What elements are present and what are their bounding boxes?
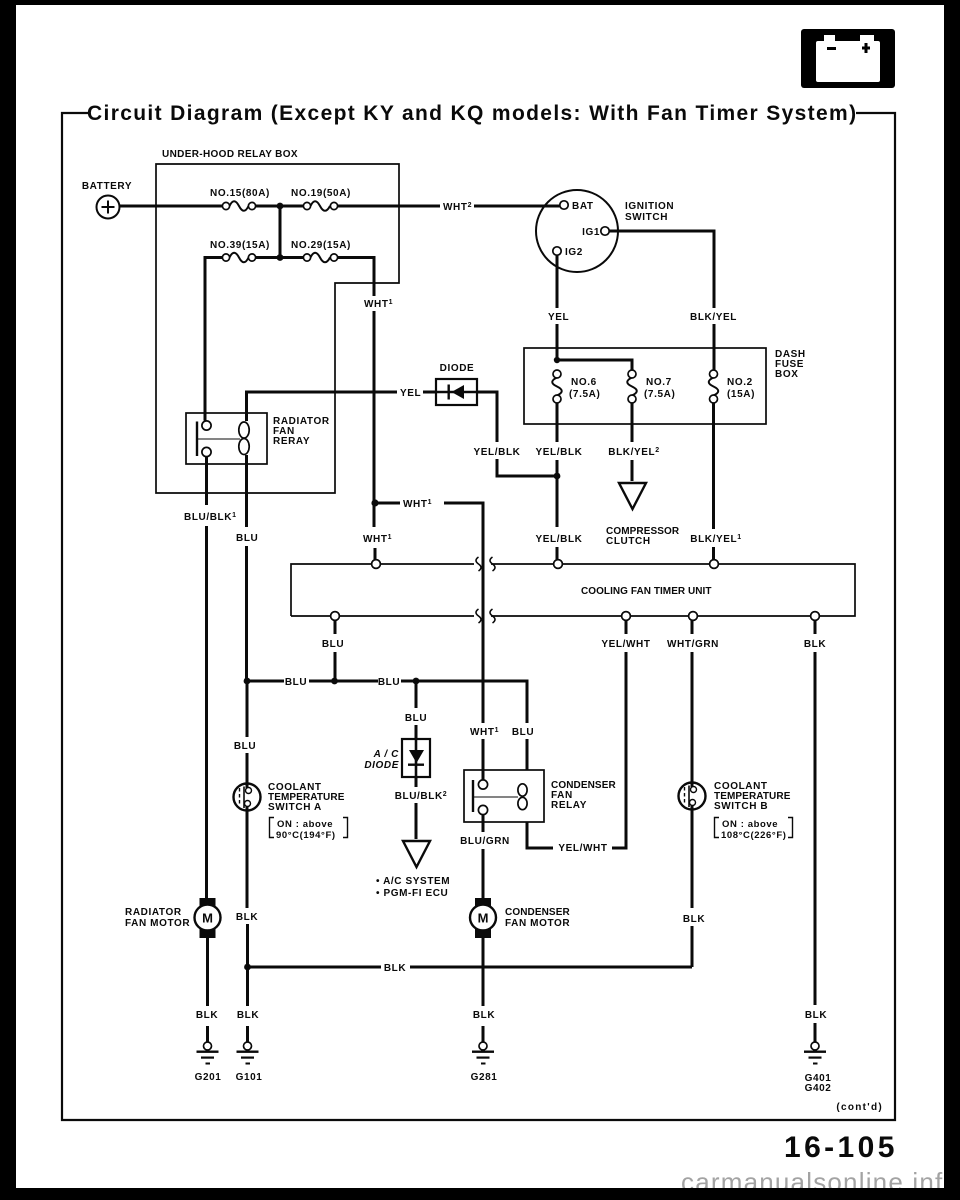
svg-text:• A/C SYSTEM: • A/C SYSTEM	[376, 876, 450, 887]
svg-text:BLU: BLU	[512, 727, 534, 738]
svg-text:BLU: BLU	[285, 677, 307, 688]
svg-text:(15A): (15A)	[727, 389, 755, 400]
svg-text:G101: G101	[236, 1072, 263, 1083]
svg-text:YEL/BLK: YEL/BLK	[474, 447, 521, 458]
svg-text:NO.2: NO.2	[727, 377, 753, 388]
svg-text:IG1: IG1	[582, 227, 600, 238]
svg-text:DIODE: DIODE	[440, 363, 475, 374]
svg-text:BLK: BLK	[237, 1010, 260, 1021]
svg-text:BLU/BLK2: BLU/BLK2	[395, 791, 448, 802]
svg-text:DIODE: DIODE	[364, 760, 399, 771]
svg-text:M: M	[202, 911, 213, 926]
svg-text:BLK: BLK	[683, 914, 706, 925]
svg-text:UNDER-HOOD RELAY BOX: UNDER-HOOD RELAY BOX	[162, 149, 298, 160]
svg-text:WHT1: WHT1	[364, 299, 393, 310]
svg-text:ON : above: ON : above	[277, 819, 333, 830]
svg-text:NO.15(80A): NO.15(80A)	[210, 188, 270, 199]
svg-text:SWITCH A: SWITCH A	[268, 802, 322, 813]
svg-text:RADIATOR: RADIATOR	[125, 907, 182, 918]
svg-text:SWITCH B: SWITCH B	[714, 801, 768, 812]
svg-text:NO.6: NO.6	[571, 377, 597, 388]
svg-text:SWITCH: SWITCH	[625, 212, 668, 223]
svg-text:A / C: A / C	[373, 749, 400, 760]
svg-text:(cont'd): (cont'd)	[836, 1102, 883, 1113]
svg-text:(7.5A): (7.5A)	[644, 389, 675, 400]
svg-text:M: M	[478, 911, 489, 926]
svg-text:FAN MOTOR: FAN MOTOR	[505, 918, 570, 929]
svg-text:ON : above: ON : above	[722, 819, 778, 830]
svg-text:BLU: BLU	[322, 639, 344, 650]
svg-text:IGNITION: IGNITION	[625, 201, 674, 212]
svg-text:G402: G402	[805, 1083, 832, 1094]
svg-text:Circuit Diagram (Except KY and: Circuit Diagram (Except KY and KQ models…	[87, 102, 857, 125]
svg-text:BLK: BLK	[805, 1010, 828, 1021]
svg-text:CLUTCH: CLUTCH	[606, 536, 651, 547]
svg-text:FAN MOTOR: FAN MOTOR	[125, 918, 190, 929]
svg-text:YEL: YEL	[548, 312, 569, 323]
svg-text:BLU: BLU	[405, 713, 427, 724]
svg-text:90°C(194°F): 90°C(194°F)	[276, 830, 336, 841]
svg-text:(7.5A): (7.5A)	[569, 389, 600, 400]
svg-text:WHT/GRN: WHT/GRN	[667, 639, 719, 650]
svg-text:BLU: BLU	[234, 741, 256, 752]
svg-text:BLU: BLU	[236, 533, 258, 544]
svg-text:NO.7: NO.7	[646, 377, 672, 388]
svg-text:YEL: YEL	[400, 388, 421, 399]
svg-text:CONDENSER: CONDENSER	[505, 907, 570, 918]
svg-text:IG2: IG2	[565, 247, 583, 258]
svg-text:BLU/GRN: BLU/GRN	[460, 836, 510, 847]
svg-text:G201: G201	[195, 1072, 222, 1083]
svg-text:BATTERY: BATTERY	[82, 181, 132, 192]
svg-text:WHT1: WHT1	[470, 727, 499, 738]
svg-text:WHT1: WHT1	[363, 534, 392, 545]
svg-text:108°C(226°F): 108°C(226°F)	[721, 830, 787, 841]
svg-text:NO.29(15A): NO.29(15A)	[291, 240, 351, 251]
svg-text:NO.39(15A): NO.39(15A)	[210, 240, 270, 251]
svg-text:BOX: BOX	[775, 369, 798, 380]
svg-text:YEL/BLK: YEL/BLK	[536, 447, 583, 458]
svg-text:BLK: BLK	[804, 639, 827, 650]
svg-text:NO.19(50A): NO.19(50A)	[291, 188, 351, 199]
svg-text:BLK/YEL2: BLK/YEL2	[608, 447, 659, 458]
svg-text:YEL/BLK: YEL/BLK	[536, 534, 583, 545]
svg-text:YEL/WHT: YEL/WHT	[601, 639, 650, 650]
svg-text:G281: G281	[471, 1072, 498, 1083]
svg-text:BLK/YEL1: BLK/YEL1	[690, 534, 741, 545]
svg-text:YEL/WHT: YEL/WHT	[558, 843, 607, 854]
svg-text:BLU: BLU	[378, 677, 400, 688]
svg-text:BLK: BLK	[473, 1010, 496, 1021]
svg-text:WHT1: WHT1	[403, 499, 432, 510]
svg-text:BAT: BAT	[572, 201, 594, 212]
svg-text:RELAY: RELAY	[551, 800, 587, 811]
svg-text:BLU/BLK1: BLU/BLK1	[184, 512, 237, 523]
svg-text:16-105: 16-105	[784, 1131, 898, 1164]
svg-text:• PGM-FI ECU: • PGM-FI ECU	[376, 888, 448, 899]
svg-text:BLK: BLK	[196, 1010, 219, 1021]
svg-text:BLK/YEL: BLK/YEL	[690, 312, 737, 323]
svg-text:RERAY: RERAY	[273, 436, 310, 447]
svg-text:WHT2: WHT2	[443, 202, 472, 213]
svg-text:BLK: BLK	[384, 963, 407, 974]
svg-text:BLK: BLK	[236, 912, 259, 923]
svg-text:COOLING FAN TIMER UNIT: COOLING FAN TIMER UNIT	[581, 586, 712, 597]
